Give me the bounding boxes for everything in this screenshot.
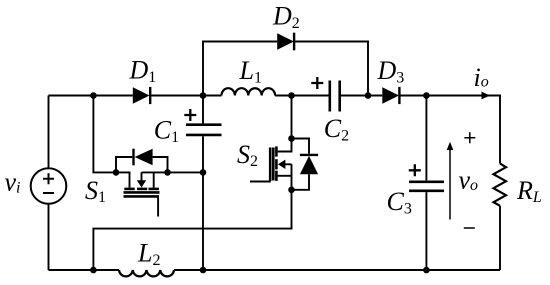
capacitor C2 plates bbox=[330, 81, 340, 112]
node dot: rail/D2-left/C1 junction bbox=[200, 92, 207, 99]
transistor S1 gate line bbox=[124, 195, 160, 198]
wire: C1 bottom lead down to bottom rail bbox=[202, 136, 204, 270]
svg-text:D2: D2 bbox=[272, 2, 300, 33]
S1 antiparallel diode loop wires bbox=[116, 157, 168, 172]
capacitor C2 plus sign bbox=[311, 77, 323, 89]
node dot: S1 wire right diode tap bbox=[164, 169, 171, 176]
v_i minus sign bbox=[43, 192, 54, 194]
transistor S2 body line bbox=[272, 148, 275, 181]
wire: top rail with D2 branch bbox=[203, 42, 368, 96]
capacitor C3 plus sign bbox=[409, 164, 421, 176]
svg-text:L1: L1 bbox=[239, 56, 262, 87]
svg-text:S1: S1 bbox=[85, 176, 106, 206]
node dot: S2 source diode tap bbox=[288, 187, 295, 194]
wire: left upper vertical (rail to S1 drain wire) bbox=[93, 96, 130, 173]
svg-text:C3: C3 bbox=[387, 187, 412, 218]
transistor S1 body line bbox=[124, 191, 160, 194]
v_o minus sign bbox=[464, 227, 475, 229]
S2 antiparallel diode loop wires bbox=[292, 139, 310, 190]
diode D3 bbox=[382, 87, 399, 104]
transistor S2 gate line bbox=[269, 148, 272, 182]
wire: right branch vertical bottom bbox=[499, 206, 501, 270]
svg-text:vi: vi bbox=[5, 168, 21, 197]
capacitor C3 bottom lead bbox=[425, 192, 427, 270]
node dot: rail/S2-drain/C2 junction bbox=[288, 92, 295, 99]
wire: main rail C2-to-D3 segment bbox=[341, 95, 382, 97]
svg-text:D1: D1 bbox=[129, 56, 157, 87]
capacitor C3 top lead bbox=[425, 96, 427, 181]
capacitor C1 lead top bbox=[202, 96, 204, 124]
inductor L2 bbox=[119, 270, 174, 276]
capacitor C1 plates bbox=[186, 125, 222, 135]
svg-text:RL: RL bbox=[516, 176, 542, 206]
wire: bottom rail right segment bbox=[174, 269, 500, 271]
wire: S2 drain vertical (rail to drain stub) bbox=[278, 96, 292, 152]
node dot: rail/D2-right junction bbox=[365, 92, 372, 99]
capacitor C3 plates bbox=[409, 182, 444, 191]
wire: bottom rail left segment bbox=[49, 269, 120, 271]
transistor S2 source arrow bbox=[278, 160, 292, 169]
v_i plus sign bbox=[43, 173, 54, 184]
transistor S2 arrow contact bar bbox=[275, 159, 278, 169]
node dot: S1 wire / C1 branch junction bbox=[200, 169, 207, 176]
transistor S1 middle contact bar bbox=[137, 188, 147, 191]
resistor R_L zigzag bbox=[494, 164, 507, 206]
inductor L1 bbox=[222, 88, 276, 95]
svg-text:vo: vo bbox=[459, 166, 479, 195]
capacitor C1 plus sign bbox=[184, 109, 196, 121]
diode D1 bbox=[133, 87, 150, 104]
transistor S1 source arrow bbox=[137, 172, 146, 187]
transistor S2 drain contact bar bbox=[275, 146, 278, 156]
svg-text:io: io bbox=[474, 63, 489, 92]
output current i_o arrowhead bbox=[482, 92, 491, 100]
wire: main rail D3-to-top-right corner bbox=[400, 95, 501, 97]
svg-text:D3: D3 bbox=[377, 56, 405, 87]
wire: S2 source vertical bbox=[93, 164, 291, 270]
transistor S1 gate lead bbox=[157, 197, 159, 217]
node dot: rail/S1-drain junction bbox=[90, 92, 97, 99]
S1 antiparallel diode bbox=[134, 149, 153, 166]
wire: right branch vertical top (to R_L) bbox=[499, 96, 501, 164]
wire: S1 source wire to node bbox=[142, 171, 204, 173]
voltage source v_i circle bbox=[31, 168, 67, 204]
S2 antiparallel diode bbox=[300, 155, 318, 174]
wire: main rail D1-to-L1 segment bbox=[150, 95, 221, 97]
svg-text:S2: S2 bbox=[237, 140, 258, 170]
svg-text:C2: C2 bbox=[324, 114, 349, 145]
wire: v_i bottom lead bbox=[48, 204, 50, 270]
svg-text:L2: L2 bbox=[137, 239, 160, 270]
transistor S2 gate lead bbox=[250, 181, 271, 183]
wire: main rail left segment bbox=[49, 95, 133, 97]
svg-text:C1: C1 bbox=[154, 115, 179, 146]
node dot: bottom rail C1-branch junction bbox=[200, 267, 207, 274]
wire: main rail L1-to-C2 segment bbox=[275, 95, 328, 97]
node dot: rail/C3 junction bbox=[423, 92, 430, 99]
output voltage v_o arrow bbox=[447, 142, 454, 220]
node dot: S2 drain diode tap bbox=[288, 135, 295, 142]
transistor S1 drain stub and contact bbox=[124, 172, 134, 189]
v_o plus sign bbox=[464, 132, 475, 143]
node dot: bottom rail left junction bbox=[90, 267, 97, 274]
node dot: S1 wire left diode tap bbox=[113, 169, 120, 176]
transistor S1 source stub and contact bbox=[149, 172, 159, 189]
transistor S2 source stub and contact bbox=[276, 171, 291, 181]
diode D2 bbox=[277, 33, 294, 51]
wire: v_i top lead bbox=[48, 96, 50, 169]
node dot: bottom rail C3 junction bbox=[423, 267, 430, 274]
